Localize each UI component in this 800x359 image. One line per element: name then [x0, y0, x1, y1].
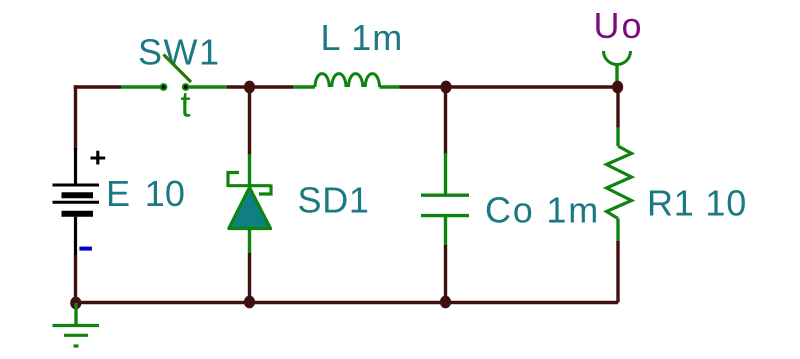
node B junction dot (capacitor tap)	[440, 81, 451, 94]
battery plus sign	[91, 151, 106, 165]
capacitor bottom junction dot	[440, 296, 451, 309]
wire Uo node down to resistor (maroon)	[616, 87, 619, 128]
wire resistor to bottom-right corner (maroon)	[616, 241, 619, 303]
svg-text:R1 10: R1 10	[647, 183, 747, 224]
terminal Uo arc (green)	[604, 51, 631, 65]
svg-text:SW1: SW1	[138, 32, 221, 73]
battery E1 plate short thick 1	[62, 192, 94, 198]
inductor L left lead (green)	[293, 85, 315, 88]
capacitor Co bottom lead (green)	[444, 216, 447, 246]
diode bottom junction dot	[244, 296, 255, 309]
capacitor Co top lead (green)	[444, 153, 447, 195]
svg-text:E: E	[106, 173, 130, 214]
switch SW1 terminal circle left	[161, 84, 167, 90]
svg-text:Uo: Uo	[594, 5, 644, 46]
svg-text:10: 10	[145, 173, 185, 214]
diode SD1 schottky cathode bar	[228, 184, 271, 187]
node Uo junction dot	[612, 81, 623, 94]
battery E1 plate long thin 1	[53, 184, 100, 187]
wire diode to bottom (maroon)	[248, 253, 251, 303]
diode SD1 triangle (teal fill)	[229, 188, 271, 229]
switch SW1 terminal circle right	[183, 84, 189, 90]
svg-text:t: t	[181, 84, 191, 125]
diode SD1 cathode lead (green)	[248, 154, 251, 186]
ground stem (green)	[74, 303, 77, 325]
wire node A down to diode (maroon)	[248, 87, 251, 155]
ground bar 3 (dash)	[74, 344, 79, 347]
resistor R1 zigzag	[607, 146, 632, 219]
ground bar 1	[53, 324, 100, 327]
wire inductor to Uo node (maroon)	[400, 85, 619, 88]
inductor L right lead (green)	[380, 85, 401, 88]
inductor L coils	[315, 74, 380, 87]
diode SD1 schottky right hook	[259, 185, 271, 195]
wire switch to node A (maroon)	[227, 85, 293, 88]
wire left vertical upper (maroon)	[74, 85, 77, 150]
battery E1 top lead (black)	[74, 148, 77, 184]
svg-text:L 1m: L 1m	[321, 17, 404, 58]
wire node B down to capacitor (maroon)	[444, 87, 447, 154]
wire bottom horizontal (maroon)	[76, 301, 619, 304]
diode SD1 schottky left hook	[228, 173, 239, 188]
node A junction dot	[244, 81, 255, 94]
capacitor Co top plate	[421, 193, 469, 196]
switch SW1 left lead (green)	[121, 85, 160, 88]
ground bar 2	[64, 334, 88, 337]
diode SD1 anode lead (green)	[248, 228, 251, 254]
ground junction dot	[70, 297, 81, 310]
wire top-left horizontal (maroon)	[74, 85, 121, 88]
switch SW1 right lead (green)	[190, 85, 228, 88]
resistor R1 top lead (green)	[616, 127, 619, 146]
wire capacitor to bottom (maroon)	[444, 245, 447, 303]
resistor R1 bottom lead (green)	[616, 219, 619, 243]
battery E1 bottom lead (black)	[74, 217, 77, 256]
battery minus sign (blue)	[79, 247, 92, 251]
switch SW1 arm (dark green diagonal)	[164, 55, 192, 83]
terminal Uo stem (green)	[615, 64, 618, 87]
battery E1 plate short thick 2	[62, 211, 94, 217]
battery E1 plate long thin 2	[53, 201, 100, 204]
capacitor Co bottom plate	[421, 214, 469, 217]
svg-text:Co 1m: Co 1m	[485, 190, 600, 231]
wire left vertical lower (maroon)	[74, 255, 77, 303]
svg-text:SD1: SD1	[298, 180, 370, 221]
